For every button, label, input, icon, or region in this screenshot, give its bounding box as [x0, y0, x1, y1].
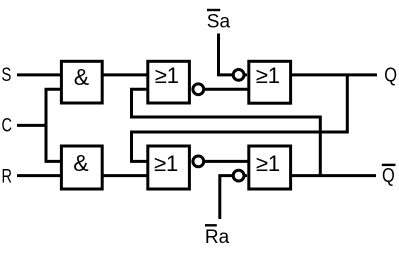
wire NOR1 bubble to U3 lower input	[193, 88, 249, 91]
overbar of Sa	[207, 9, 220, 11]
wire U4 output to Qbar	[291, 174, 376, 177]
svg-text:S: S	[1, 65, 11, 86]
NOR gate U4 body	[249, 146, 291, 189]
svg-text:R: R	[2, 166, 13, 187]
svg-text:≥1: ≥1	[154, 151, 178, 176]
output bubble of U6	[193, 156, 204, 167]
svg-text:≥1: ≥1	[155, 63, 179, 88]
overbar of Ra	[205, 224, 217, 226]
overbar of Qbar	[382, 164, 396, 166]
AND gate U2	[61, 146, 102, 189]
svg-text:≥1: ≥1	[256, 63, 280, 88]
wire feedback Qbar to NOR1 input	[132, 89, 321, 175]
svg-text:&: &	[73, 150, 88, 176]
wire R input	[17, 174, 61, 177]
wire Ra input rise	[220, 176, 247, 219]
wire Sa input drop	[219, 34, 248, 75]
svg-text:&: &	[74, 64, 89, 90]
svg-text:C: C	[2, 115, 13, 136]
output bubble of U5	[193, 84, 204, 95]
wire feedback Q to NOR2 input	[132, 75, 348, 161]
wire AND2 output to NOR2 input	[102, 174, 148, 177]
input bubble of U3	[233, 70, 244, 81]
svg-text:Q: Q	[382, 164, 395, 187]
NOR gate U6 body	[148, 146, 190, 189]
svg-text:Q: Q	[384, 63, 397, 86]
svg-text:Sa: Sa	[207, 12, 231, 33]
AND gate U1	[61, 61, 102, 103]
svg-text:≥1: ≥1	[256, 151, 280, 176]
NOR gate U3 body	[249, 61, 291, 103]
NOR gate U5 body	[148, 61, 190, 103]
wire C input	[17, 124, 46, 127]
input bubble of U4	[233, 170, 244, 181]
wire U3 output to Q	[291, 73, 377, 76]
svg-text:Ra: Ra	[205, 227, 230, 248]
wire S input	[17, 73, 61, 76]
wire NOR2 bubble to U4 upper input	[193, 160, 249, 163]
wire C branch vertical	[46, 89, 61, 161]
wire AND1 output to NOR1 input	[102, 73, 148, 76]
